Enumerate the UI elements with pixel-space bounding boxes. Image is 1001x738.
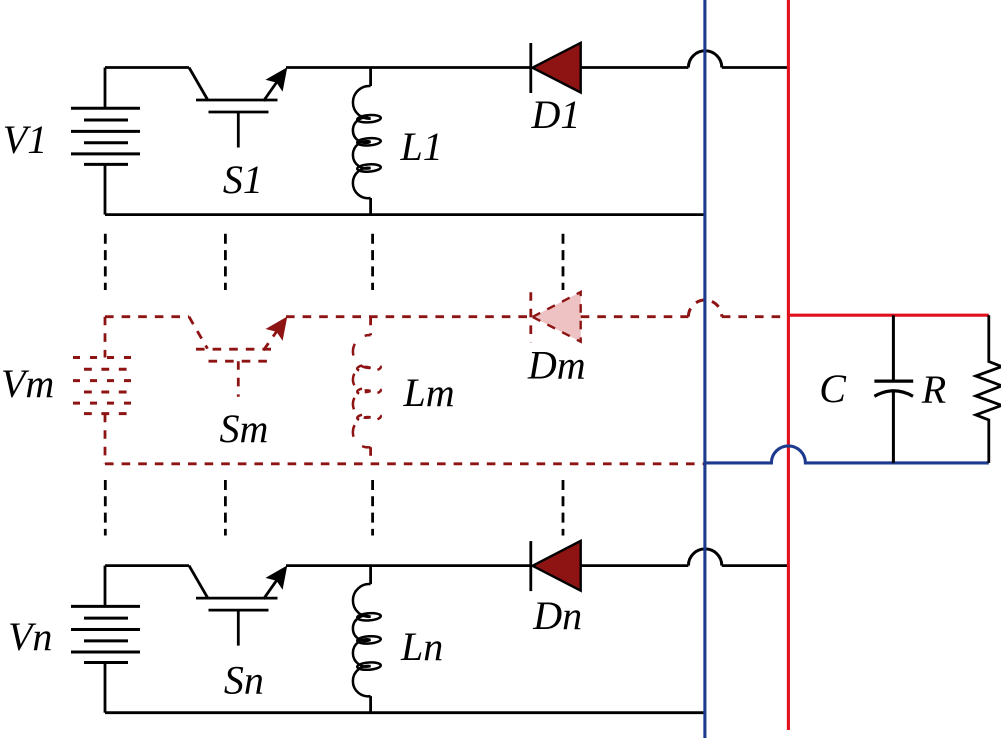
svg-text:Ln: Ln	[400, 624, 443, 669]
svg-text:Vm: Vm	[1, 361, 54, 406]
svg-text:Lm: Lm	[403, 370, 455, 415]
svg-text:C: C	[819, 366, 847, 411]
svg-text:V1: V1	[3, 117, 47, 162]
svg-text:D1: D1	[531, 92, 581, 137]
svg-text:Sn: Sn	[224, 658, 264, 703]
svg-text:Vn: Vn	[8, 614, 52, 659]
svg-text:S1: S1	[223, 157, 263, 202]
svg-text:Dm: Dm	[527, 343, 586, 388]
svg-text:R: R	[921, 367, 946, 412]
svg-text:Dn: Dn	[532, 593, 582, 638]
svg-text:L1: L1	[400, 124, 443, 169]
svg-text:Sm: Sm	[220, 406, 269, 451]
